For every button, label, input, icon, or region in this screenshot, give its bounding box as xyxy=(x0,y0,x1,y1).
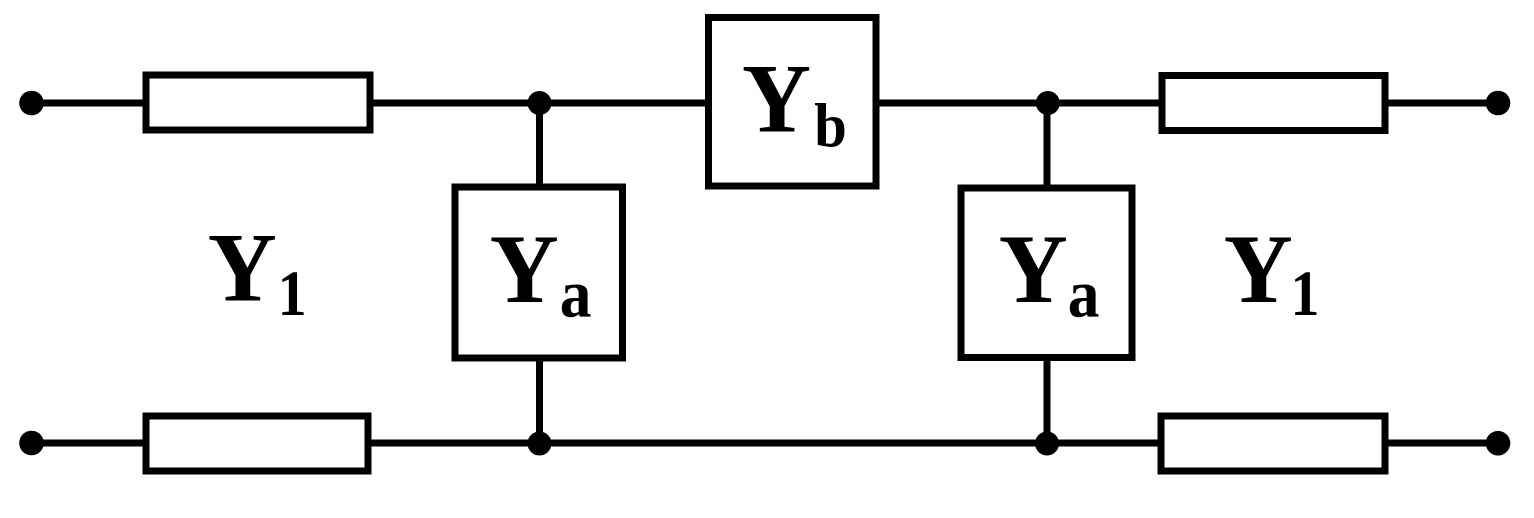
svg-text:Y: Y xyxy=(1224,215,1293,324)
admittance block Yb (series) xyxy=(709,18,877,187)
wire: node A down to left shunt block Ya xyxy=(536,103,543,187)
wire: node B down to right shunt block Ya xyxy=(1044,103,1051,188)
label Yb xyxy=(742,44,847,160)
wire: lower-right box to port-2 terminal xyxy=(1385,440,1499,447)
admittance block Ya (right shunt) xyxy=(961,188,1132,358)
label Y1 (left port series admittance) xyxy=(208,214,307,330)
node: port-2 lower terminal xyxy=(1486,431,1511,456)
svg-text:Y: Y xyxy=(742,44,811,153)
wire: upper-left terminal to series box Y1 xyxy=(32,100,147,107)
node D: junction of bottom rail and right shunt branch xyxy=(1035,432,1059,456)
wire: upper-right box to port-2 terminal xyxy=(1385,100,1498,107)
svg-text:Y: Y xyxy=(208,214,277,323)
svg-text:a: a xyxy=(560,256,592,332)
svg-text:Y: Y xyxy=(490,215,559,324)
node A: junction of top rail and left shunt branch xyxy=(528,91,552,115)
wire: bottom rail from lower-left box to lower-right box xyxy=(368,440,1161,447)
node: port-1 lower terminal xyxy=(19,431,44,456)
svg-text:b: b xyxy=(814,93,847,161)
svg-text:1: 1 xyxy=(278,258,307,330)
label Ya (left) xyxy=(490,215,592,332)
wire: left shunt block Ya down to node C xyxy=(536,358,543,443)
node B: junction of top rail and right shunt branch xyxy=(1036,91,1060,115)
svg-text:1: 1 xyxy=(1291,258,1320,330)
label Y1 (right port series admittance) xyxy=(1224,215,1320,330)
node C: junction of bottom rail and left shunt branch xyxy=(528,432,552,456)
wire: lower-left terminal to series box xyxy=(32,440,147,447)
wire: right shunt block Ya down to node D xyxy=(1044,358,1051,444)
svg-text:a: a xyxy=(1068,256,1100,332)
wire: upper-left box to Yb box through node A xyxy=(370,100,709,107)
node: port-1 upper terminal xyxy=(19,91,44,116)
wire: Yb box to upper-right series box through node B xyxy=(876,100,1162,107)
series element box (upper-right, Y1) xyxy=(1162,76,1385,131)
node: port-2 upper terminal xyxy=(1486,91,1511,116)
series element box (lower-left) xyxy=(146,416,368,471)
label Ya (right) xyxy=(999,215,1100,332)
series element box (lower-right) xyxy=(1161,416,1385,471)
series element box (upper-left, Y1) xyxy=(146,75,370,130)
admittance block Ya (left shunt) xyxy=(455,187,623,358)
svg-text:Y: Y xyxy=(999,215,1068,324)
